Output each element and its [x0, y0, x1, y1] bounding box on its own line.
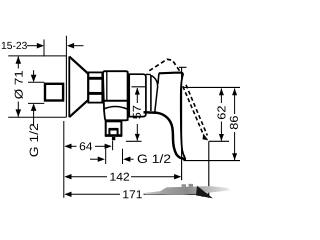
escutcheon cone right face [87, 73, 89, 101]
gray shadow swoosh [145, 184, 230, 199]
valve body mid line [103, 100, 127, 102]
dimension G 1/2 bottom arrow left [123, 157, 130, 162]
lever neck rising edge [158, 74, 159, 85]
wall pipe square stub [45, 84, 63, 101]
dimension 71 arrow up [16, 56, 22, 64]
outlet inner top bar [109, 128, 119, 131]
dimension 64 arrow right [105, 144, 112, 149]
extension line diameter top (y=55.9) [8, 55, 66, 57]
label 171 [123, 190, 142, 198]
extension line left datum (x=63.6) [63, 121, 65, 198]
label 142 [110, 173, 129, 181]
lever top edge [159, 73, 183, 75]
label 86 [230, 116, 238, 129]
lever stem [150, 75, 152, 111]
lever inner contour [152, 76, 158, 112]
label 57 [133, 106, 141, 119]
dimension 86 arrow down [232, 153, 237, 160]
dimension 171 line left [71, 193, 120, 195]
outlet block bottom heavy edge [105, 134, 122, 136]
axis tick at handle [132, 86, 146, 88]
dimension 71 arrow down [16, 109, 22, 117]
outlet inner left wall [108, 129, 110, 136]
valve body [103, 71, 128, 120]
label 64 [80, 142, 92, 150]
extension line outlet right (x=122.5) [122, 149, 124, 164]
dimension line 86 (x=234.6) [234, 88, 236, 114]
dimension line G 1/2 left (x=33.6) [33, 70, 35, 76]
dimension 15-23 leader line right [74, 45, 84, 47]
dimension G 1/2 bottom arrow right [90, 158, 99, 160]
dimension 86 arrow up [232, 88, 237, 95]
extension line escutcheon face top (x=66.4) [65, 36, 67, 57]
lever grip belly [144, 112, 187, 159]
label G 1/2 left [29, 124, 38, 157]
valve body lower arc [103, 107, 127, 110]
extension line lever bottom (y=160.6) [183, 160, 240, 162]
dimension line 57 [136, 88, 138, 103]
label diameter 71 [14, 71, 22, 99]
tick square top (y=82.2) [28, 81, 44, 83]
dimension 15-23 leader line left [27, 45, 39, 47]
label G 1/2 bottom [138, 154, 171, 163]
outlet inner right wall [117, 129, 119, 136]
extension line 62 bottom (y=141.3) [209, 140, 229, 142]
outlet block outer [106, 121, 122, 135]
dashed handle raised top [149, 59, 180, 72]
dimension 142 line left [71, 176, 107, 178]
valve body inner line [106, 72, 108, 101]
escutcheon cone top slant [69, 57, 88, 74]
extension line outlet left (x=105.7) [105, 149, 107, 164]
dimension line 62 (x=221.4) [220, 88, 222, 103]
dashed handle raised band lower [186, 85, 207, 136]
tick square bottom (y=103.4) [28, 102, 44, 104]
G 1/2 left arrow down [31, 75, 37, 83]
dimension 142 arrow right [174, 174, 181, 179]
dimension 15-23 arrow left [37, 43, 44, 49]
dimension 15-23 text [2, 42, 27, 49]
escutcheon cone bottom slant [69, 100, 88, 117]
dimension 57 arrow up [135, 88, 140, 95]
dimension 62 arrow up [219, 88, 224, 95]
dimension 142 line right [131, 176, 175, 178]
dimension 171 line right [144, 193, 203, 195]
extension line diameter bottom (y=117.2) [8, 116, 66, 118]
dimension 64 line left [71, 145, 77, 147]
dimension 64 arrow left [64, 144, 71, 149]
lever stem top connect [146, 73, 151, 75]
extension line outlet axis (x=112.6) [112, 141, 114, 151]
dimension 171 arrow right [202, 192, 209, 197]
dimension 57 arrow down [135, 134, 140, 141]
escutcheon cone face lines [65, 56, 67, 117]
dimension 64 line right [95, 145, 106, 147]
extension line axis right (y=87.4) [183, 86, 240, 88]
union nut [88, 72, 102, 102]
dimension 62 arrow down [219, 134, 224, 141]
extension line 142 right (x=181.6) [181, 67, 183, 180]
lever right edge [181, 75, 185, 158]
label 62 [217, 106, 225, 119]
dashed handle raised band upper [183, 86, 205, 137]
dashed handle tip [203, 134, 209, 141]
handle cap [129, 74, 146, 116]
tick 142 top [179, 66, 187, 68]
outlet nub [112, 137, 115, 140]
body right edge [127, 71, 129, 121]
dimension 15-23 arrow right [67, 43, 74, 49]
dimension 142 arrow left [64, 174, 71, 179]
dimension line diameter 71 (x=18.3) [17, 56, 19, 68]
tick 57 bottom [126, 140, 142, 142]
extension line 171 right (x=208.8) [208, 141, 210, 198]
G 1/2 left arrow up [31, 103, 37, 111]
extension line wall (x=44) [43, 40, 45, 57]
dimension 171 arrow left [64, 192, 71, 197]
